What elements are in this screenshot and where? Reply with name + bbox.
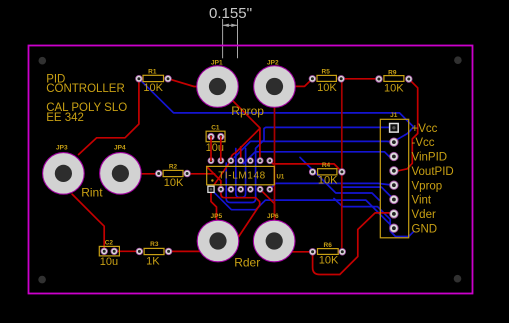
J1 labels — [412, 123, 454, 235]
J1 pad 6 — [390, 195, 398, 203]
wire blue to -Vcc pad2 — [234, 141, 394, 157]
wire blue IC inner U — [236, 149, 246, 198]
svg-text:JP2: JP2 — [267, 60, 279, 67]
wire red C2 to R3 — [114, 250, 139, 252]
connector J1 — [380, 112, 408, 238]
svg-text:J1: J1 — [390, 112, 398, 119]
svg-text:0.155'': 0.155'' — [209, 5, 252, 22]
svg-text:GND: GND — [412, 223, 438, 235]
wire red IC bottom right — [260, 189, 274, 212]
J1 pad 5 — [390, 181, 398, 189]
resistor R1 — [136, 69, 172, 94]
svg-text:10K: 10K — [317, 82, 337, 94]
svg-text:Rprop: Rprop — [231, 104, 264, 118]
wire blue to +Vcc pad1 via IC outer loop — [226, 127, 394, 202]
wire red IC to R4 — [270, 161, 342, 172]
svg-text:TI-LM148: TI-LM148 — [218, 170, 266, 181]
svg-text:Vprop: Vprop — [412, 180, 443, 192]
svg-text:JP3: JP3 — [56, 145, 68, 152]
svg-text:R4: R4 — [322, 162, 331, 169]
wire red R3 to JP5 — [169, 250, 201, 252]
wire red branch to IC pad3 — [231, 128, 260, 160]
wire red R2 to IC — [187, 173, 214, 175]
svg-text:R1: R1 — [148, 69, 157, 76]
IC pads top row — [208, 158, 273, 164]
svg-text:CONTROLLER: CONTROLLER — [46, 83, 125, 95]
svg-text:JP4: JP4 — [114, 145, 126, 152]
wire red IC square pad to JP5 — [211, 189, 217, 220]
big pad JP5 — [197, 213, 239, 262]
svg-text:Vder: Vder — [412, 209, 436, 221]
resistor R2 — [155, 164, 190, 190]
svg-text:10K: 10K — [384, 82, 404, 94]
resistor R9 — [376, 70, 413, 95]
resistor R3 — [136, 241, 172, 268]
J1 pad 3 — [390, 152, 398, 160]
wire red C1 pads to IC (over silk) — [211, 137, 221, 161]
svg-text:10K: 10K — [143, 82, 163, 94]
svg-text:R6: R6 — [324, 242, 333, 249]
wire red JP2 to JP6 vertical — [274, 107, 276, 221]
big pad JP1 — [197, 60, 239, 108]
svg-text:+Vcc: +Vcc — [412, 123, 438, 135]
resistor R6 — [309, 242, 345, 267]
wire red JP6 to R6 — [291, 251, 313, 253]
svg-text:Rint: Rint — [81, 186, 103, 200]
J1 pad 8 — [390, 224, 398, 232]
svg-text:Rder: Rder — [234, 255, 260, 269]
J1 pad 2 — [390, 138, 398, 146]
wire red R1 to JP1 — [168, 79, 199, 87]
IC pads bottom row (pin1 square) — [208, 186, 273, 192]
mounting hole dots — [39, 57, 47, 65]
svg-text:U1: U1 — [277, 175, 285, 181]
wire blue R1 pad to J1 pad2 long bus — [139, 79, 414, 142]
dimension 0.155" — [223, 19, 238, 58]
wire red R1 to JP3 — [79, 79, 139, 155]
wire red IC bottom to JP5 — [221, 189, 260, 236]
wire red JP1 to IC pad6 — [233, 101, 260, 161]
svg-text:VinPID: VinPID — [412, 152, 448, 164]
wire blue mid y193 — [300, 157, 379, 200]
svg-text:Vint: Vint — [412, 195, 432, 207]
svg-text:R3: R3 — [150, 241, 159, 248]
wire blue to Vint pad6 — [342, 187, 394, 199]
svg-text:-Vcc: -Vcc — [412, 137, 435, 149]
svg-text:R9: R9 — [388, 70, 397, 77]
svg-text:JP1: JP1 — [211, 60, 223, 67]
wire red R5 to R9 — [341, 78, 379, 80]
svg-text:EE 342: EE 342 — [46, 112, 84, 124]
svg-text:10u: 10u — [100, 256, 118, 268]
resistor R5 — [309, 69, 344, 95]
svg-text:10K: 10K — [319, 255, 339, 267]
J1 pad 1 (square) — [390, 124, 399, 133]
wire blue under J1 box — [334, 199, 414, 237]
svg-text:C2: C2 — [105, 240, 114, 247]
wire red into IC pad4 — [240, 147, 242, 161]
big pad JP3 — [43, 145, 85, 195]
wire red IC diagonal 2 — [207, 167, 221, 190]
svg-text:R5: R5 — [322, 69, 331, 76]
op-amp U1 TI-LM148 — [207, 166, 285, 184]
big pad JP4 — [100, 145, 142, 195]
big pad JP2 — [254, 60, 296, 108]
board outline — [29, 46, 473, 294]
svg-text:JP5: JP5 — [211, 213, 223, 220]
J1 pad 4 — [390, 167, 398, 175]
big pad JP6 — [253, 213, 295, 262]
wire red JP3 to C2 — [72, 194, 104, 251]
svg-text:C1: C1 — [211, 124, 220, 131]
J1 pad 7 — [390, 210, 398, 218]
wire red R5-R4-R6 long vertical — [341, 79, 343, 252]
resistor R4 — [309, 162, 345, 186]
wire red JP2 to R5 — [295, 79, 312, 87]
wire red JP4 to R2 — [141, 173, 159, 175]
wire red IC pin diagonal — [211, 161, 231, 190]
svg-text:JP6: JP6 — [267, 213, 279, 220]
capacitor C1 — [206, 124, 225, 154]
svg-text:1K: 1K — [146, 256, 160, 268]
svg-text:VoutPID: VoutPID — [412, 166, 454, 178]
svg-text:10K: 10K — [164, 177, 184, 189]
wire blue to GND pad8 — [211, 189, 394, 228]
wire blue to VinPID pad3 — [243, 152, 394, 164]
svg-text:R2: R2 — [169, 164, 178, 171]
wire blue to Vprop pad5 — [270, 183, 392, 189]
capacitor C2 — [99, 240, 119, 269]
svg-text:10K: 10K — [318, 175, 338, 187]
wire red R6 loop to Vder pad7 — [313, 213, 394, 275]
wire red R9 to VoutPID pad4 — [394, 79, 418, 171]
